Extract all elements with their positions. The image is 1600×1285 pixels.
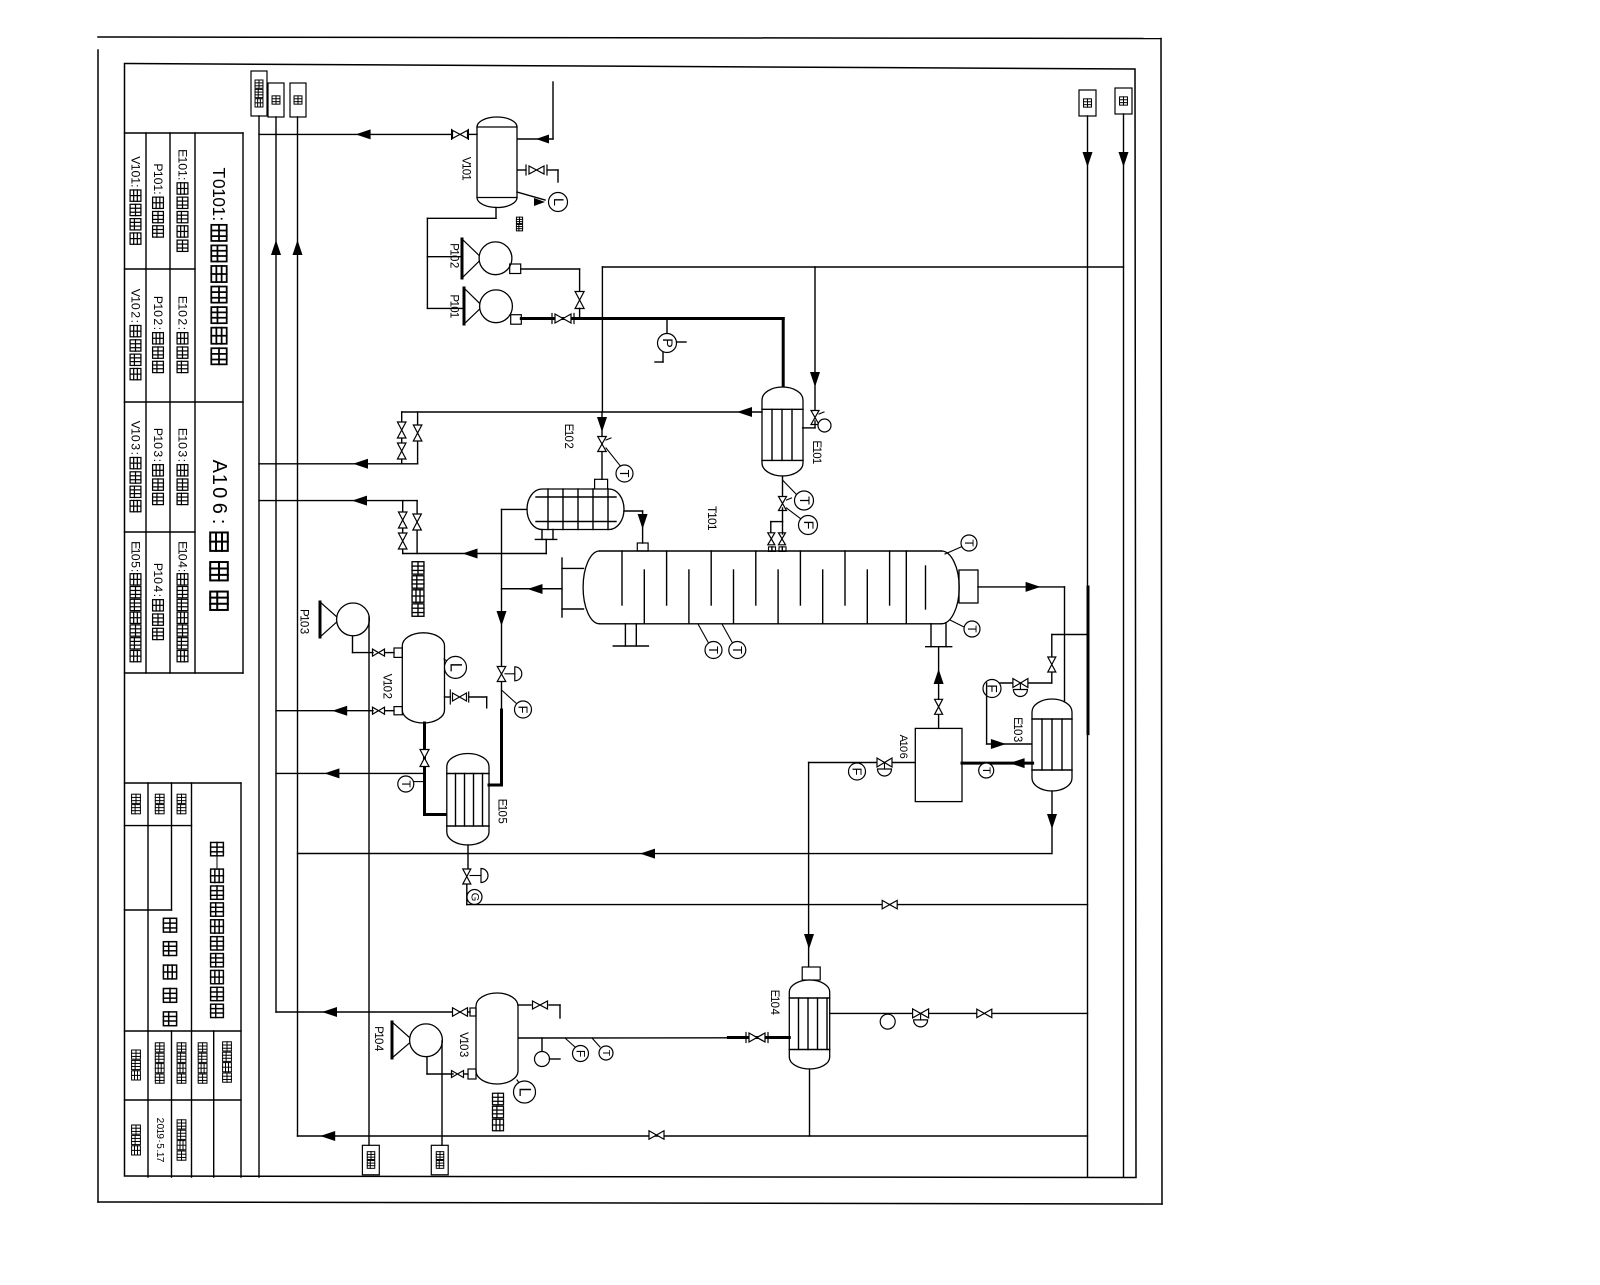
- svg-text::: :: [151, 459, 165, 462]
- svg-text:1: 1: [448, 312, 460, 318]
- svg-text:0: 0: [768, 1002, 780, 1008]
- svg-text:T: T: [399, 780, 413, 788]
- svg-text:T: T: [796, 496, 812, 505]
- svg-text::: :: [129, 452, 143, 455]
- svg-text:3: 3: [457, 1051, 469, 1057]
- svg-text:0: 0: [495, 810, 507, 816]
- svg-text:5: 5: [129, 561, 143, 568]
- svg-text:0: 0: [176, 554, 190, 561]
- svg-text:3: 3: [129, 443, 143, 450]
- svg-text::: :: [176, 569, 190, 572]
- svg-text:0: 0: [176, 310, 190, 317]
- svg-text:0: 0: [448, 255, 460, 261]
- svg-text:4: 4: [176, 561, 190, 568]
- svg-text:7: 7: [154, 1157, 165, 1163]
- svg-text:0: 0: [129, 554, 143, 561]
- svg-text:T: T: [730, 646, 745, 654]
- svg-text:T: T: [980, 767, 992, 774]
- svg-text:2: 2: [151, 318, 165, 325]
- svg-text:3: 3: [151, 450, 165, 457]
- svg-text:6: 6: [897, 753, 909, 759]
- svg-text::: :: [176, 327, 190, 330]
- svg-text::: :: [208, 519, 230, 525]
- svg-text:0: 0: [297, 621, 309, 627]
- svg-text:2: 2: [129, 311, 143, 318]
- svg-text:F: F: [800, 521, 816, 530]
- svg-text::: :: [176, 177, 190, 180]
- svg-text:1: 1: [209, 206, 229, 216]
- svg-text:0: 0: [457, 1044, 469, 1050]
- svg-text:2: 2: [176, 318, 190, 325]
- svg-text:1: 1: [176, 170, 190, 177]
- svg-text:3: 3: [297, 628, 309, 634]
- svg-text:4: 4: [768, 1008, 780, 1015]
- svg-text:L: L: [550, 198, 566, 206]
- svg-text:5: 5: [154, 1143, 165, 1149]
- svg-text:T: T: [209, 168, 229, 179]
- svg-text:—: —: [209, 855, 225, 870]
- svg-text::: :: [151, 327, 165, 330]
- svg-text:G: G: [469, 893, 481, 902]
- svg-text:0: 0: [381, 686, 393, 692]
- svg-text:5: 5: [495, 817, 507, 823]
- svg-text::: :: [209, 216, 229, 221]
- svg-text::: :: [176, 459, 190, 462]
- svg-text:T: T: [706, 646, 721, 654]
- svg-text:3: 3: [1011, 736, 1023, 742]
- svg-text:0: 0: [151, 442, 165, 449]
- svg-text:0: 0: [151, 310, 165, 317]
- svg-text:2: 2: [381, 693, 393, 699]
- svg-text:0: 0: [151, 577, 165, 584]
- svg-text:4: 4: [151, 585, 165, 592]
- svg-text:0: 0: [129, 435, 143, 442]
- svg-text:0: 0: [208, 487, 230, 498]
- svg-text:T: T: [600, 1050, 612, 1057]
- svg-text:3: 3: [176, 450, 190, 457]
- svg-text::: :: [129, 320, 143, 323]
- svg-text:L: L: [447, 663, 465, 672]
- svg-text:T: T: [617, 470, 632, 478]
- svg-text:T: T: [965, 625, 979, 633]
- svg-text:A: A: [208, 460, 230, 474]
- svg-text:4: 4: [372, 1045, 384, 1052]
- svg-text::: :: [129, 184, 143, 187]
- svg-text:6: 6: [208, 503, 230, 514]
- svg-text:0: 0: [176, 442, 190, 449]
- svg-text:F: F: [516, 706, 531, 714]
- svg-text:1: 1: [151, 184, 165, 191]
- svg-text:1: 1: [460, 174, 472, 180]
- svg-text:2: 2: [562, 442, 574, 448]
- svg-text:F: F: [850, 768, 865, 776]
- svg-text:1: 1: [810, 458, 822, 464]
- svg-text:0: 0: [372, 1038, 384, 1044]
- svg-text:P: P: [659, 338, 675, 348]
- svg-text:0: 0: [562, 435, 574, 441]
- svg-text:0: 0: [897, 746, 909, 752]
- svg-text:T: T: [962, 539, 976, 547]
- svg-text:L: L: [516, 1087, 534, 1096]
- svg-text:1: 1: [705, 524, 719, 531]
- svg-text:1: 1: [208, 474, 230, 485]
- svg-text::: :: [151, 594, 165, 597]
- svg-text::: :: [129, 569, 143, 572]
- svg-text:0: 0: [1011, 729, 1023, 735]
- svg-text:F: F: [574, 1050, 588, 1057]
- svg-text:1: 1: [129, 177, 143, 184]
- svg-text:0: 0: [129, 303, 143, 310]
- svg-text::: :: [151, 191, 165, 194]
- svg-text:2: 2: [448, 262, 460, 268]
